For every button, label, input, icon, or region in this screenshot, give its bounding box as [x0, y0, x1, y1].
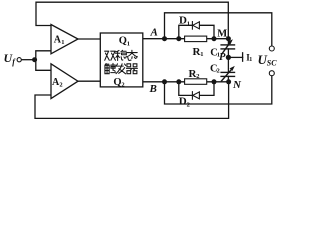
svg-text:Q: Q — [113, 77, 121, 88]
svg-text:1: 1 — [249, 57, 252, 63]
node D2 right junction — [212, 79, 217, 84]
op-amp A2 — [51, 64, 78, 99]
node B junction to Usc — [162, 79, 167, 84]
node A junction to Usc — [162, 36, 167, 41]
label 触发器 (CJK drawn) — [105, 63, 137, 73]
svg-text:2: 2 — [187, 101, 190, 108]
wire A1 output to flip-flop — [78, 38, 100, 40]
terminal Usc bottom — [269, 71, 274, 76]
wire D2 branch — [179, 82, 214, 96]
node N — [226, 79, 231, 84]
capacitor C1 (variable) — [220, 43, 235, 54]
svg-text:1: 1 — [61, 39, 64, 46]
resistor R1 — [185, 36, 207, 42]
wire capacitor column M-C1-P — [227, 39, 229, 45]
svg-text:1: 1 — [200, 51, 203, 58]
label 双稳态 (CJK drawn) — [105, 50, 138, 60]
svg-text:2: 2 — [196, 73, 199, 80]
node B junction D2 left — [176, 79, 181, 84]
svg-text:A: A — [150, 27, 158, 39]
wire Uf input — [22, 59, 36, 61]
svg-text:D: D — [179, 96, 187, 108]
svg-text:Q: Q — [119, 35, 127, 46]
svg-text:D: D — [179, 15, 187, 27]
diode D2 — [192, 91, 199, 100]
wire node P to current tap I1 — [228, 56, 242, 58]
diode D1 — [192, 21, 199, 30]
wire A2 output to flip-flop — [78, 80, 100, 82]
wire node B line Q2 output — [143, 81, 229, 83]
svg-text:2: 2 — [121, 82, 124, 89]
wire Uf to comparator inputs — [36, 51, 51, 71]
flip-flop box U1 — [100, 33, 143, 87]
svg-text:1: 1 — [187, 20, 190, 27]
wire node A line Q1 output — [143, 38, 229, 40]
terminal Usc top — [269, 46, 274, 51]
node D1 right junction — [212, 36, 217, 41]
node A junction D1 left — [176, 36, 181, 41]
node M — [226, 36, 231, 41]
svg-text:2: 2 — [217, 67, 220, 74]
wire Usc top terminal to node A — [165, 13, 272, 46]
wire A2 lower input to bottom feedback — [35, 82, 229, 119]
junction Uf input node — [32, 57, 37, 62]
svg-text:M: M — [217, 28, 227, 39]
wire D1 branch — [179, 25, 214, 38]
svg-text:B: B — [149, 83, 157, 95]
op-amp A1 — [51, 25, 78, 54]
svg-text:N: N — [232, 79, 242, 91]
svg-text:1: 1 — [127, 40, 130, 47]
resistor R2 — [185, 79, 207, 85]
svg-text:SC: SC — [267, 59, 277, 68]
capacitor C2 (variable) — [220, 69, 235, 81]
node P — [226, 55, 231, 60]
svg-text:2: 2 — [59, 82, 62, 89]
svg-text:P: P — [219, 52, 226, 63]
wire node B to Usc bottom terminal — [165, 76, 272, 104]
terminal Uf — [17, 58, 21, 62]
wire top feedback M to A1 upper input — [36, 2, 228, 39]
wire capacitor column P-C2-N — [227, 57, 229, 72]
